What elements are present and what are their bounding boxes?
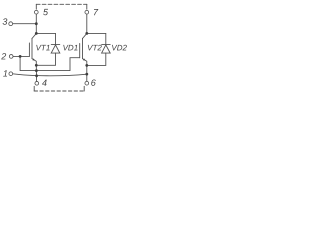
svg-text:VD1: VD1 bbox=[63, 43, 79, 52]
svg-text:6: 6 bbox=[91, 78, 96, 88]
pin 2 terminal bbox=[9, 55, 13, 59]
node collector/VD1 bbox=[35, 32, 38, 35]
node pin3/collector bbox=[35, 22, 38, 25]
branch to VD1 bbox=[36, 32, 55, 34]
VT1 emitter diagonal bbox=[32, 59, 36, 66]
pin 1 terminal bbox=[9, 72, 13, 76]
VD1 cathode bar bbox=[51, 43, 60, 45]
VD1 anode lead bbox=[36, 53, 55, 65]
pin 7 terminal bbox=[85, 10, 89, 14]
pin 4 terminal bbox=[35, 81, 39, 85]
node A2 emitter/VD2 bbox=[85, 64, 88, 67]
pin 3 terminal bbox=[9, 22, 13, 26]
svg-text:1: 1 bbox=[3, 69, 8, 79]
VT1 emitter arrow bbox=[32, 58, 34, 60]
node emitter/pin1 bbox=[35, 74, 38, 77]
VD2 triangle bbox=[102, 45, 111, 53]
package outline top dashed bbox=[35, 4, 37, 9]
svg-text:3: 3 bbox=[2, 17, 7, 27]
VD1 cathode lead bbox=[55, 33, 57, 44]
VT2 emitter arrow bbox=[83, 58, 85, 60]
VT1 collector diagonal bbox=[32, 33, 36, 38]
labels bbox=[0, 7, 127, 88]
node pin2 branch bbox=[19, 55, 22, 58]
node emitter/gate-link bbox=[35, 69, 38, 72]
VT2 collector diagonal bbox=[83, 33, 87, 38]
VT2 body bar bbox=[82, 38, 84, 58]
VD2 cathode bar bbox=[102, 43, 111, 45]
svg-text:VT2: VT2 bbox=[87, 43, 102, 52]
VD2 cathode lead bbox=[105, 33, 107, 44]
emitter column to pin 6 bbox=[86, 65, 88, 81]
pin 1 wire bbox=[13, 74, 87, 76]
VT1 body bar bbox=[31, 38, 33, 58]
gate link wire bbox=[20, 56, 80, 70]
VT2 emitter diagonal bbox=[83, 59, 87, 66]
svg-text:4: 4 bbox=[42, 78, 47, 88]
pin circles bbox=[9, 10, 89, 85]
node collector2/VD2 bbox=[85, 32, 88, 35]
pin 6 terminal bbox=[85, 81, 89, 85]
node emitter2/pin1 bbox=[85, 73, 88, 76]
svg-text:5: 5 bbox=[43, 7, 49, 17]
VT1 gate bar bbox=[28, 43, 30, 56]
svg-text:VD2: VD2 bbox=[111, 43, 127, 52]
pin 5 lead bbox=[35, 14, 37, 33]
VD1 triangle bbox=[51, 45, 60, 53]
pin 7 lead bbox=[86, 14, 88, 33]
VT2 gate bar bbox=[79, 44, 81, 58]
VD2 anode lead bbox=[87, 53, 106, 65]
branch to VD2 bbox=[87, 32, 106, 34]
svg-text:2: 2 bbox=[0, 51, 6, 61]
svg-text:VT1: VT1 bbox=[36, 43, 51, 52]
svg-text:7: 7 bbox=[93, 7, 99, 17]
pin 5 terminal bbox=[34, 10, 38, 14]
pin 3 wire bbox=[13, 23, 36, 25]
node A emitter/VD1 bbox=[35, 64, 38, 67]
emitter column to pin 4 bbox=[35, 65, 37, 81]
package outline bottom dashed bbox=[33, 86, 35, 91]
junction dots bbox=[19, 22, 89, 77]
pin 2 wire bbox=[13, 55, 29, 57]
